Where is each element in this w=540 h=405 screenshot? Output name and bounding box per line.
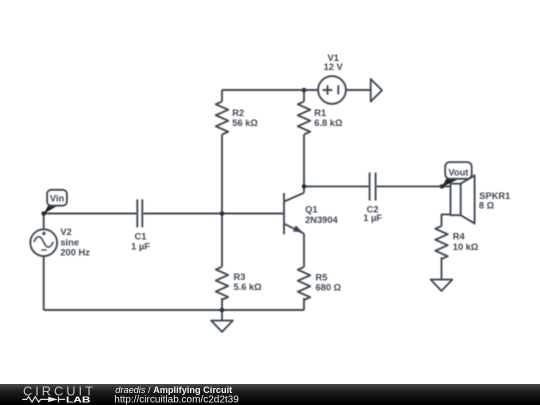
svg-text:SPKR1: SPKR1 — [479, 191, 510, 201]
svg-text:Q1: Q1 — [305, 205, 317, 215]
svg-text:6.8 kΩ: 6.8 kΩ — [314, 118, 343, 128]
svg-text:C1: C1 — [135, 231, 147, 241]
svg-text:Vout: Vout — [448, 167, 468, 177]
svg-text:R3: R3 — [234, 272, 246, 282]
svg-text:sine: sine — [60, 237, 79, 247]
svg-text:R5: R5 — [316, 273, 328, 283]
svg-text:http://circuitlab.com/c2d2t39: http://circuitlab.com/c2d2t39 — [114, 394, 239, 405]
svg-text:draedis / Amplifying Circuit: draedis / Amplifying Circuit — [115, 385, 232, 395]
svg-text:R2: R2 — [232, 108, 244, 118]
svg-text:680 Ω: 680 Ω — [316, 283, 342, 293]
svg-text:1 µF: 1 µF — [363, 213, 382, 223]
svg-text:2N3904: 2N3904 — [305, 215, 338, 225]
svg-text:Vin: Vin — [50, 193, 65, 203]
svg-text:V2: V2 — [60, 227, 71, 237]
svg-text:R1: R1 — [314, 108, 326, 118]
svg-text:10 kΩ: 10 kΩ — [453, 242, 479, 252]
svg-text:1 µF: 1 µF — [131, 241, 150, 251]
svg-text:12 V: 12 V — [324, 62, 344, 72]
svg-text:5.6 kΩ: 5.6 kΩ — [234, 282, 263, 292]
svg-text:56 kΩ: 56 kΩ — [232, 118, 258, 128]
svg-text:8 Ω: 8 Ω — [479, 200, 495, 210]
svg-text:R4: R4 — [453, 231, 466, 241]
svg-text:LAB: LAB — [66, 395, 90, 405]
svg-text:200 Hz: 200 Hz — [60, 248, 90, 258]
